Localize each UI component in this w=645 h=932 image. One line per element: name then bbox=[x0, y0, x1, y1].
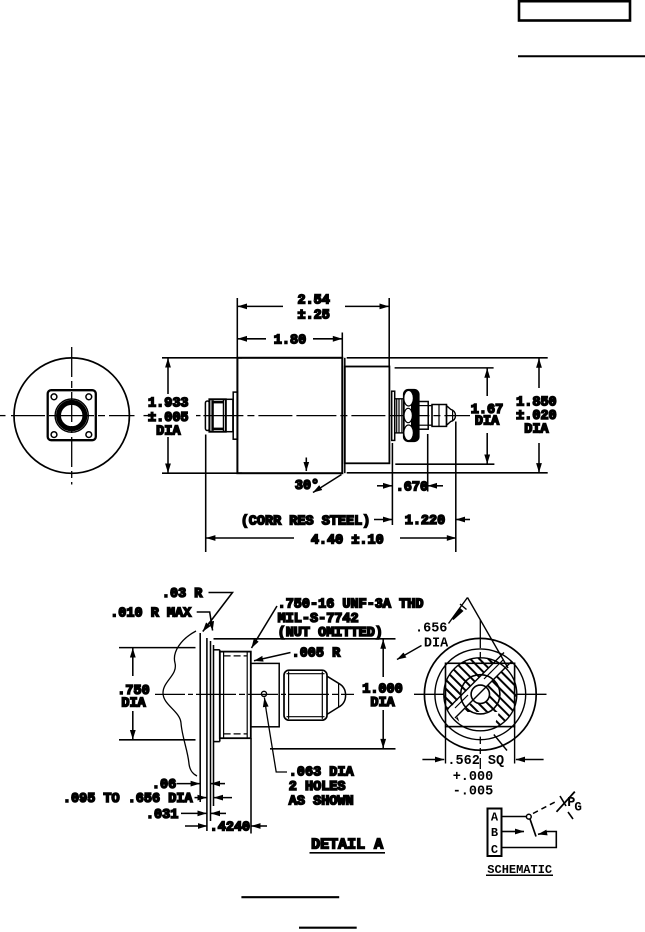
svg-text:DIA: DIA bbox=[424, 637, 449, 652]
svg-text:1.933: 1.933 bbox=[148, 397, 189, 412]
svg-text:.4240: .4240 bbox=[210, 821, 251, 836]
svg-text:DIA: DIA bbox=[370, 696, 395, 711]
svg-text:AS SHOWN: AS SHOWN bbox=[289, 794, 354, 809]
svg-text:.06: .06 bbox=[152, 778, 176, 793]
svg-text:1.850: 1.850 bbox=[516, 395, 557, 410]
svg-text:(CORR RES STEEL): (CORR RES STEEL) bbox=[241, 514, 371, 529]
svg-text:B: B bbox=[491, 826, 498, 840]
svg-text:4.40 ±.10: 4.40 ±.10 bbox=[311, 534, 384, 549]
svg-text:.562 SQ: .562 SQ bbox=[447, 754, 504, 769]
svg-text:2 HOLES: 2 HOLES bbox=[289, 780, 346, 795]
svg-text:1.220: 1.220 bbox=[405, 514, 446, 529]
svg-text:DETAIL A: DETAIL A bbox=[311, 837, 383, 854]
svg-text:30°: 30° bbox=[295, 479, 319, 494]
svg-text:(NUT OMITTED): (NUT OMITTED) bbox=[278, 626, 383, 641]
svg-text:A: A bbox=[491, 810, 499, 824]
svg-text:2.54: 2.54 bbox=[297, 294, 329, 309]
svg-text:.750-16 UNF-3A THD: .750-16 UNF-3A THD bbox=[278, 597, 424, 612]
svg-text:.670: .670 bbox=[396, 480, 428, 495]
svg-text:G: G bbox=[574, 800, 582, 814]
svg-text:.063 DIA: .063 DIA bbox=[289, 765, 355, 780]
svg-text:DIA: DIA bbox=[156, 424, 181, 439]
svg-text:+.000: +.000 bbox=[453, 770, 494, 785]
svg-text:.010 R MAX: .010 R MAX bbox=[110, 606, 192, 621]
svg-text:.031: .031 bbox=[146, 808, 178, 823]
svg-text:1.80: 1.80 bbox=[274, 333, 306, 348]
svg-text:C: C bbox=[491, 843, 498, 857]
svg-text:MIL-S-7742: MIL-S-7742 bbox=[278, 612, 359, 627]
svg-text:.03 R: .03 R bbox=[162, 587, 203, 602]
svg-text:.656: .656 bbox=[415, 622, 447, 637]
svg-text:-.005: -.005 bbox=[453, 784, 494, 799]
svg-text:±.25: ±.25 bbox=[297, 308, 329, 323]
svg-text:DIA: DIA bbox=[524, 423, 549, 438]
svg-text:.005 R: .005 R bbox=[292, 647, 342, 662]
svg-text:DIA: DIA bbox=[475, 415, 500, 430]
svg-text:.095 TO .656 DIA: .095 TO .656 DIA bbox=[63, 792, 194, 807]
svg-text:DIA: DIA bbox=[121, 697, 146, 712]
